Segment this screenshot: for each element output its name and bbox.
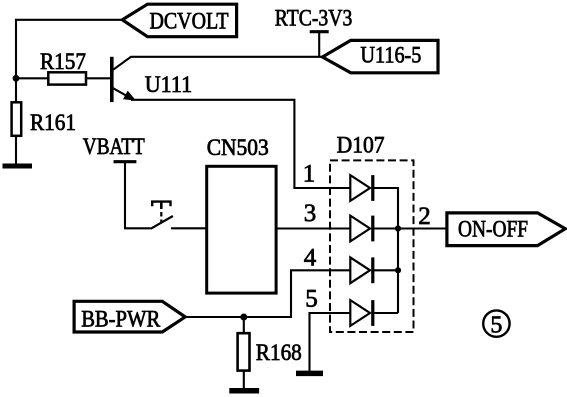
svg-text:R168: R168 — [256, 340, 302, 365]
svg-text:4: 4 — [304, 244, 317, 271]
svg-text:5: 5 — [305, 286, 318, 313]
svg-text:R157: R157 — [40, 49, 86, 74]
svg-text:DCVOLT: DCVOLT — [150, 9, 229, 34]
svg-text:D107: D107 — [337, 132, 385, 157]
svg-text:1: 1 — [303, 161, 316, 188]
svg-text:CN503: CN503 — [207, 135, 269, 160]
svg-text:VBATT: VBATT — [83, 134, 145, 159]
svg-text:R161: R161 — [30, 110, 76, 135]
svg-text:BB-PWR: BB-PWR — [81, 306, 161, 331]
svg-text:3: 3 — [304, 200, 317, 227]
svg-text:ON-OFF: ON-OFF — [458, 217, 528, 242]
svg-text:U116-5: U116-5 — [360, 42, 421, 67]
svg-text:U111: U111 — [145, 72, 193, 97]
svg-text:5: 5 — [490, 312, 502, 338]
svg-text:RTC-3V3: RTC-3V3 — [275, 6, 353, 31]
svg-text:2: 2 — [418, 203, 431, 230]
